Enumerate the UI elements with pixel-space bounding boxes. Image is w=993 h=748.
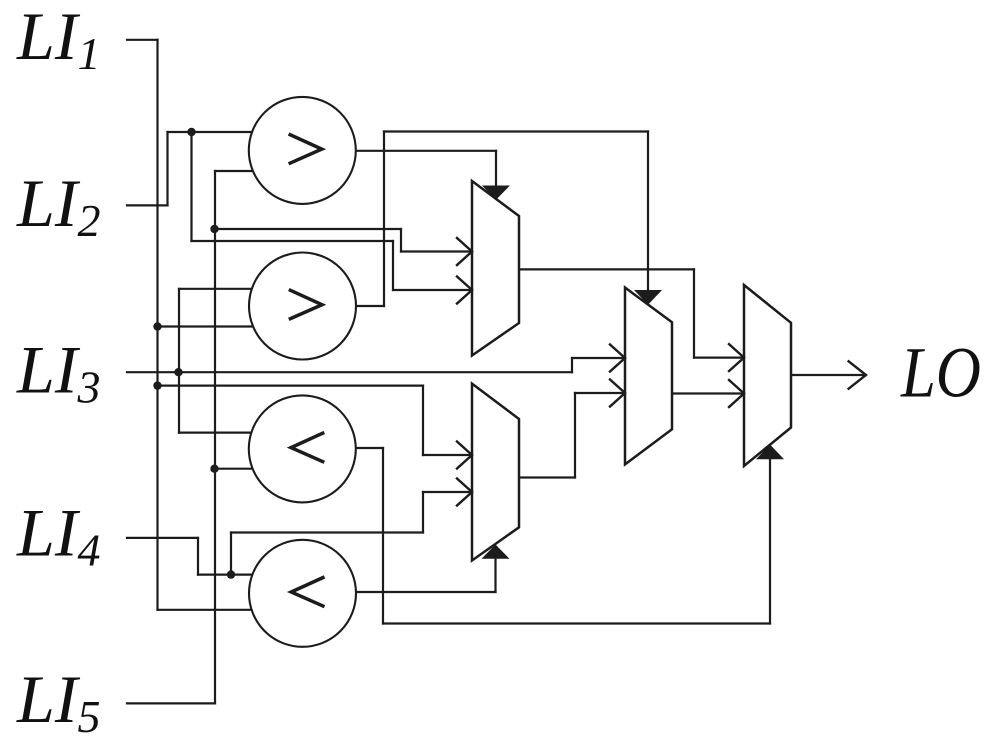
wire LI4 lead [127,537,198,539]
mux3 input1 chevron [610,345,625,372]
junction dot on LI1 bus (mux2 input1 tap) [153,381,161,389]
wire LI3 riser x=179 [178,289,180,433]
svg-text:LI5: LI5 [16,661,100,742]
svg-text:LI1: LI1 [16,0,100,79]
wire mux3 select horizontal y=131.5 [384,130,648,132]
wire comparator1 input2 (LI5) [215,170,258,172]
wire comparator4 input2 (LI1) [158,609,257,611]
greater-than glyph in comparator U1 [290,135,322,163]
wire mux2 output riser x=575 [574,393,576,478]
wire mux3 output to mux4 input2 [672,392,743,394]
comparator U3 (less-than) circle [249,395,356,502]
wire comparator2 input1 (LI3) [179,288,256,290]
mux4 input1 chevron [729,344,744,371]
wire mux2 input2 riser x=423 [422,492,424,533]
wire comparator3 output [352,447,383,449]
wire mux2 input1 feed [423,454,471,456]
multiplexer MUX2 trapezoid [472,384,519,561]
greater-than glyph in comparator U2 [290,290,322,318]
wire comparator3 input2 (LI5) [215,468,256,470]
wire LI2 branch drop x=393 [392,241,394,290]
wire LI1 vertical bus x=157.5 [156,40,158,610]
wire mux4 select horizontal y=622.7 [383,622,770,624]
wire comparator3 output drop x=383 [382,448,384,624]
mux3 select arrowhead [634,290,662,305]
less-than glyph in comparator U4 [291,578,323,606]
wire mux2 output horizontal y=477.5 [519,476,575,478]
wire LI2 branch drop x=191.5 [190,132,192,241]
wire LI5 vertical bus x=215 [214,171,216,703]
wire LO output [791,374,865,376]
LO output arrowhead chevron [849,361,866,388]
wire comparator1 output [352,150,496,152]
wire comparator4 input1 (LI4) [198,573,256,575]
mux4 select arrowhead [756,445,784,460]
junction dot on LI5 bus (line A tap) [210,225,218,233]
wire mux2 select riser x=495.5 [494,557,496,592]
wire LI2 lead [127,204,168,206]
wire mux2 input2 feed [423,491,471,493]
wire LI4 branch horizontal y=532.5 [231,531,423,533]
comparator U4 (less-than) circle [249,540,356,647]
mux4 input2 chevron [729,380,744,407]
wire mux1 output drop x=694 [693,269,695,357]
mux3 input2 chevron [610,380,625,407]
wire comparator1 input1 (LI2) [168,131,257,133]
comparator U1 (greater-than) circle [249,97,356,204]
wire mux4 input1 feed [694,357,743,359]
wire LI1 lead [127,39,158,41]
junction dot on comparator1 input1 (LI2 branch) [187,128,195,136]
wire LI5 branch drop x=401 [400,229,402,252]
svg-text:LI4: LI4 [16,495,100,576]
wire mux1 input2 feed [393,289,471,291]
mux2 input2 chevron [457,479,472,506]
wire LI2 riser x=167.5 [166,132,168,205]
multiplexer MUX3 trapezoid [625,288,672,465]
multiplexer MUX4 trapezoid [744,285,791,466]
junction dot on LI3 line (riser tap) [174,368,182,376]
wire mux3 select drop x=648 [647,132,649,293]
junction dot on LI5 bus (comparator3 input2 tap) [210,465,218,473]
wire mux1 input1 feed [401,250,471,252]
wire comparator2 input2 (LI1) [158,325,257,327]
wire comparator2 output [352,305,384,307]
wire comparator4 output [352,591,496,593]
wire LI3 step up x=572 [571,358,573,372]
wire LI3 main horizontal [127,371,572,373]
wire LI1 branch horizontal y=385.6 [158,385,424,387]
wire mux3 input2 feed [575,392,624,394]
junction dot on comparator4 input1 (LI4 branch) [227,570,235,578]
mux2 select arrowhead [482,545,510,559]
wire mux3 input1 feed [572,357,624,359]
junction dot on LI1 bus (comparator2 input2 tap) [153,322,161,330]
comparator U2 (greater-than) circle [249,253,356,360]
svg-text:LI2: LI2 [16,165,100,246]
wire comparator2 output riser x=384 [383,132,385,307]
wire mux2 input1 drop x=423 [422,386,424,455]
wire mux4 select riser x=770 [769,457,771,624]
wire mux1 select drop x=496 [495,151,497,188]
mux1 input1 chevron [457,238,472,265]
wire LI4 branch riser x=231 [230,533,232,575]
mux2 input1 chevron [457,442,472,469]
wire LI2 branch horizontal y=241 [192,240,394,242]
wire mux1 output horizontal y=269.4 [519,268,694,270]
wire LI4 drop x=198 [197,538,199,575]
wire comparator3 input1 (LI3) [179,432,256,434]
multiplexer MUX1 trapezoid [472,181,519,356]
wire LI5 lead [127,702,215,704]
svg-text:LI3: LI3 [16,332,100,413]
svg-text:LO: LO [900,333,981,413]
mux1 select arrowhead [482,186,510,200]
mux1 input2 chevron [457,277,472,304]
less-than glyph in comparator U3 [291,433,323,461]
wire LI5 branch horizontal y=229 [215,228,401,230]
